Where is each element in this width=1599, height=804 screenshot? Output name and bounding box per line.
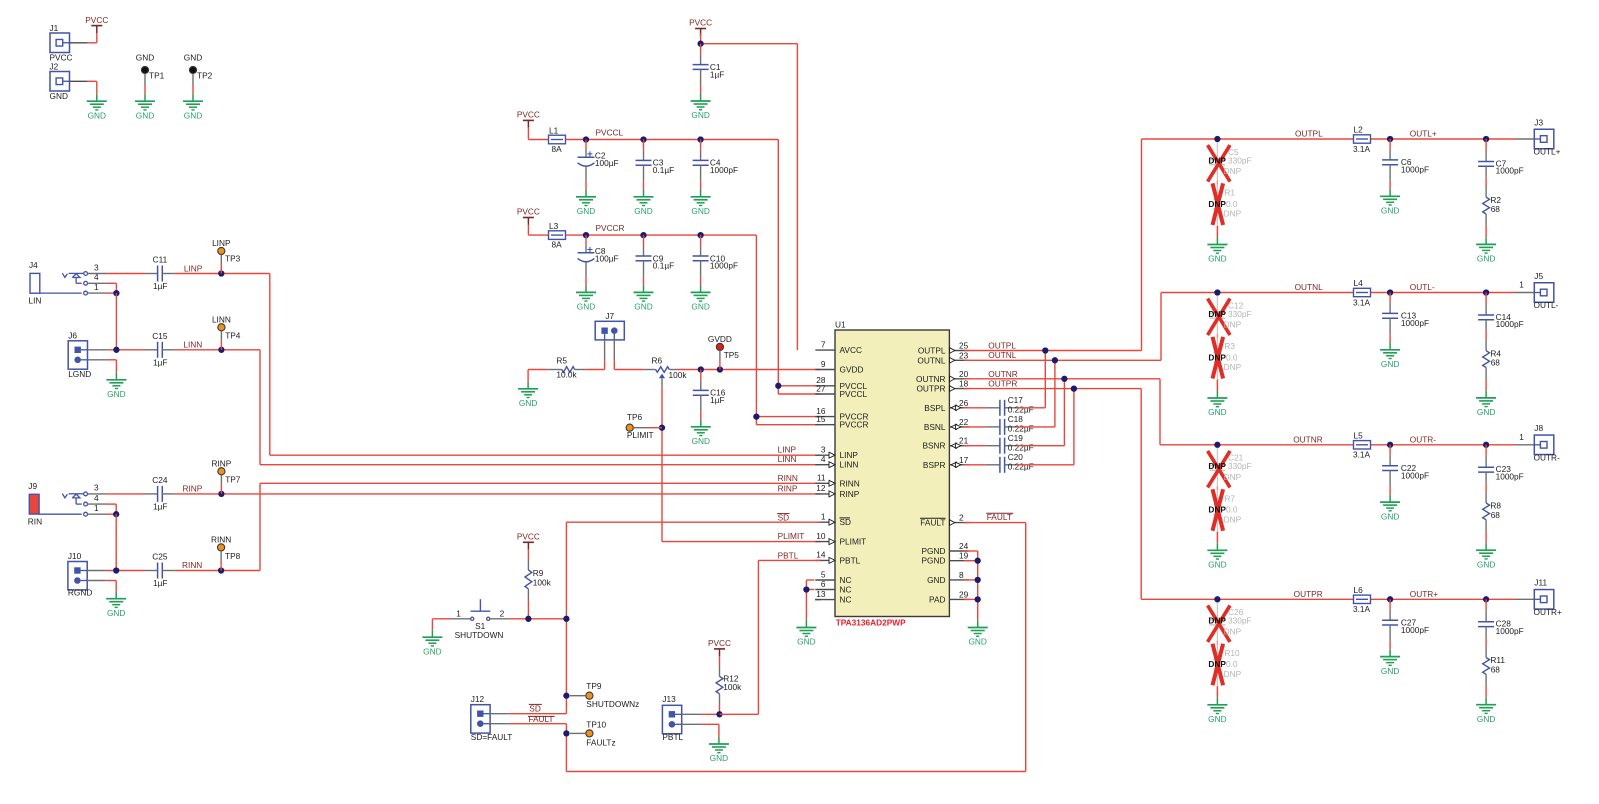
- svg-text:R1: R1: [1224, 188, 1235, 198]
- wire OUTNL rail: [1161, 292, 1354, 294]
- svg-text:1000pF: 1000pF: [1401, 165, 1429, 175]
- wire RINN row: [260, 482, 821, 484]
- resistor R4: [1483, 340, 1502, 380]
- wire: [107, 493, 146, 495]
- wire: [1389, 599, 1391, 609]
- svg-text:TP1: TP1: [149, 71, 165, 81]
- svg-text:R10: R10: [1224, 648, 1240, 658]
- power symbol PVCC (R12): [708, 638, 731, 656]
- svg-text:12: 12: [816, 483, 826, 493]
- wire: [633, 427, 649, 429]
- svg-text:C17: C17: [1008, 395, 1024, 405]
- svg-text:DNP: DNP: [1208, 199, 1226, 209]
- U1 pin 3 (LINP): [815, 445, 858, 461]
- svg-text:LINN: LINN: [778, 454, 797, 464]
- wire: [87, 580, 106, 582]
- junction: [1214, 596, 1220, 602]
- svg-text:0.22µF: 0.22µF: [1008, 462, 1034, 472]
- svg-text:330pF: 330pF: [1228, 155, 1252, 165]
- svg-text:1: 1: [456, 608, 461, 618]
- svg-text:NC: NC: [840, 575, 852, 585]
- svg-text:LINN: LINN: [840, 460, 859, 470]
- wire: [432, 618, 451, 620]
- svg-text:C18: C18: [1008, 414, 1024, 424]
- wire PVCCR: [566, 234, 757, 236]
- svg-text:GND: GND: [927, 575, 945, 585]
- svg-text:PVCC: PVCC: [708, 638, 731, 648]
- U1 pin 6 (NC): [815, 579, 851, 595]
- svg-text:7: 7: [821, 339, 826, 349]
- svg-text:TP8: TP8: [225, 551, 241, 561]
- connector J9 (audio jack): [28, 481, 107, 527]
- junction: [659, 425, 665, 431]
- svg-text:3: 3: [821, 445, 826, 455]
- capacitor C15: [145, 331, 175, 368]
- connector J2: [50, 62, 70, 102]
- svg-text:PBTL: PBTL: [778, 550, 799, 560]
- svg-text:1µF: 1µF: [153, 281, 167, 291]
- svg-text:1µF: 1µF: [153, 578, 167, 588]
- capacitor C14: [1478, 304, 1524, 332]
- U1 pin 1 (SD): [815, 512, 851, 528]
- svg-text:100k: 100k: [669, 370, 688, 380]
- svg-text:SHUTDOWN: SHUTDOWN: [455, 630, 504, 640]
- U1 pin 29 (PAD): [929, 589, 969, 604]
- wire OUTNR rail: [1160, 444, 1354, 446]
- wire: [107, 503, 117, 505]
- svg-text:DNP: DNP: [1224, 626, 1242, 636]
- svg-text:GND: GND: [107, 389, 125, 399]
- ground: [87, 94, 107, 120]
- wire PBTL: [720, 713, 759, 715]
- svg-text:RINP: RINP: [182, 484, 202, 494]
- svg-text:3.1A: 3.1A: [1353, 604, 1371, 614]
- testpoint TP4: [212, 314, 241, 340]
- wire: [1485, 331, 1487, 339]
- ground: [1476, 237, 1496, 263]
- wire: [700, 181, 702, 190]
- svg-text:TP3: TP3: [225, 253, 241, 263]
- svg-text:OUTPR: OUTPR: [1294, 589, 1323, 599]
- svg-text:OUTNL: OUTNL: [1295, 282, 1324, 292]
- svg-text:330pF: 330pF: [1228, 309, 1252, 319]
- wire: [700, 370, 702, 380]
- wire: [70, 42, 88, 44]
- U1 pin 26 (BSPL): [924, 398, 968, 413]
- wire: [700, 277, 702, 286]
- svg-text:17: 17: [959, 455, 969, 465]
- svg-text:GND: GND: [519, 398, 537, 408]
- capacitor C26 (DNP, crossed out): [1208, 605, 1252, 642]
- svg-text:23: 23: [959, 350, 969, 360]
- svg-text:1: 1: [1519, 432, 1524, 442]
- svg-text:GND: GND: [691, 110, 709, 120]
- junction: [697, 136, 703, 142]
- wire: [220, 255, 222, 264]
- wire: [1485, 532, 1487, 543]
- wire: [220, 475, 222, 484]
- svg-text:1000pF: 1000pF: [1401, 470, 1429, 480]
- svg-text:1000pF: 1000pF: [1496, 626, 1524, 636]
- connector J6: [68, 331, 91, 380]
- wire: [88, 349, 108, 351]
- ground: [135, 94, 155, 120]
- capacitor C7: [1478, 150, 1524, 178]
- wire: [527, 370, 529, 382]
- wire: [677, 369, 821, 371]
- resistor R8: [1483, 492, 1502, 532]
- wire: [1485, 445, 1487, 456]
- capacitor C21 (DNP, crossed out): [1208, 451, 1252, 488]
- wire: [1216, 380, 1218, 392]
- svg-text:PAD: PAD: [929, 594, 945, 604]
- svg-text:OUTNR: OUTNR: [1293, 434, 1323, 444]
- U1 pin 16 (PVCCR): [815, 406, 868, 422]
- junction: [583, 232, 589, 238]
- ground: [576, 285, 596, 311]
- U1 pin 20 (OUTNR): [916, 369, 969, 384]
- U1 pin 15 (PVCCR): [815, 414, 868, 430]
- svg-text:LINN: LINN: [183, 340, 202, 350]
- wire: [1485, 293, 1487, 304]
- svg-text:RINN: RINN: [182, 560, 202, 570]
- wire: [490, 723, 509, 725]
- wire: [613, 340, 615, 360]
- svg-text:DNP: DNP: [1224, 515, 1242, 525]
- junction: [1483, 136, 1489, 142]
- svg-text:GND: GND: [1381, 511, 1399, 521]
- ground: [691, 94, 711, 120]
- svg-text:OUTL-: OUTL-: [1410, 282, 1435, 292]
- svg-text:LINN: LINN: [212, 314, 231, 324]
- svg-text:GVDD: GVDD: [708, 334, 732, 344]
- svg-text:OUTR+: OUTR+: [1534, 607, 1563, 617]
- junction: [563, 730, 569, 736]
- ground: [691, 420, 711, 446]
- wire: [570, 732, 586, 734]
- wire: [700, 86, 702, 95]
- capacitor C2 (polarized): [578, 149, 619, 182]
- ground: [691, 190, 711, 216]
- power symbol PVCC (L3): [517, 207, 540, 225]
- svg-text:TP9: TP9: [586, 681, 602, 691]
- svg-text:GVDD: GVDD: [840, 365, 864, 375]
- svg-text:18: 18: [959, 379, 969, 389]
- svg-text:LINP: LINP: [184, 263, 203, 273]
- junction: [1214, 442, 1220, 448]
- svg-text:GND: GND: [136, 110, 154, 120]
- svg-text:J9: J9: [28, 481, 37, 491]
- svg-text:9: 9: [821, 359, 826, 369]
- svg-text:TP7: TP7: [225, 475, 241, 485]
- svg-text:3.1A: 3.1A: [1353, 297, 1371, 307]
- svg-text:GND: GND: [692, 436, 710, 446]
- junction: [697, 41, 703, 47]
- capacitor C12 (DNP, crossed out): [1208, 299, 1252, 336]
- svg-text:L3: L3: [549, 221, 559, 231]
- svg-text:PGND: PGND: [922, 546, 946, 556]
- junction: [1042, 347, 1048, 353]
- svg-text:DNP: DNP: [1224, 166, 1242, 176]
- ground: [1207, 698, 1227, 724]
- svg-text:100µF: 100µF: [595, 254, 619, 264]
- resistor R6 (pot): [644, 356, 687, 381]
- capacitor C19: [986, 433, 1034, 454]
- svg-text:C11: C11: [153, 255, 168, 265]
- wire OUTPR: [964, 388, 1141, 390]
- capacitor C3: [636, 150, 675, 181]
- junction: [1214, 136, 1220, 142]
- capacitor C8 (polarized): [578, 244, 619, 277]
- junction: [218, 491, 224, 497]
- svg-text:J6: J6: [68, 331, 77, 341]
- svg-text:FAULTz: FAULTz: [586, 737, 615, 747]
- connector J12: [471, 694, 513, 742]
- junction: [1052, 357, 1058, 363]
- ground: [1207, 543, 1227, 569]
- wire: [1216, 226, 1218, 238]
- svg-text:PVCC: PVCC: [517, 207, 540, 217]
- svg-text:GND: GND: [691, 302, 709, 312]
- wire: [87, 570, 106, 572]
- svg-text:2: 2: [500, 608, 505, 618]
- svg-text:LIN: LIN: [29, 296, 42, 306]
- wire: [144, 74, 146, 86]
- svg-text:BSPR: BSPR: [923, 460, 946, 470]
- svg-text:J7: J7: [605, 311, 614, 321]
- svg-text:1000pF: 1000pF: [1496, 166, 1524, 176]
- connector J13: [662, 694, 683, 742]
- svg-text:RINP: RINP: [840, 489, 860, 499]
- svg-text:OUTPR: OUTPR: [916, 384, 945, 394]
- svg-text:1: 1: [94, 282, 99, 292]
- junction: [716, 711, 722, 717]
- capacitor C4: [693, 150, 738, 181]
- svg-text:OUTNR: OUTNR: [988, 369, 1018, 379]
- capacitor C22: [1382, 455, 1429, 486]
- svg-text:PBTL: PBTL: [840, 555, 861, 565]
- junction: [1483, 289, 1489, 295]
- capacitor C5 (DNP, crossed out): [1208, 145, 1252, 182]
- svg-text:SD=FAULT: SD=FAULT: [471, 732, 513, 742]
- svg-text:GND: GND: [50, 91, 68, 101]
- testpoint TP2: [184, 52, 213, 80]
- wire: [643, 235, 645, 245]
- ground: [1380, 650, 1400, 676]
- resistor R10 (DNP, crossed out): [1208, 644, 1241, 686]
- wire: [509, 713, 567, 715]
- svg-text:LINP: LINP: [840, 450, 859, 460]
- wire: [1389, 445, 1391, 455]
- svg-text:68: 68: [1491, 358, 1501, 368]
- ground: [106, 592, 126, 618]
- svg-text:GND: GND: [1477, 714, 1495, 724]
- svg-text:0.0: 0.0: [1226, 352, 1238, 362]
- svg-text:PVCCL: PVCCL: [596, 128, 624, 138]
- junction: [113, 511, 119, 517]
- svg-text:0.22µF: 0.22µF: [1008, 443, 1034, 453]
- U1 pin 25 (OUTPL): [918, 341, 969, 356]
- svg-text:1µF: 1µF: [153, 501, 167, 511]
- svg-text:BSNR: BSNR: [922, 441, 945, 451]
- svg-text:100k: 100k: [533, 577, 552, 587]
- testpoint TP7: [211, 458, 240, 484]
- svg-text:R5: R5: [556, 356, 567, 366]
- ground: [709, 737, 729, 763]
- connector J5: [1534, 271, 1559, 310]
- wire (DNP branch body): [1216, 296, 1218, 380]
- svg-text:6: 6: [821, 579, 826, 589]
- svg-text:10: 10: [816, 531, 826, 541]
- svg-text:GND: GND: [184, 52, 202, 62]
- junction: [975, 577, 981, 583]
- svg-text:DNP: DNP: [1224, 472, 1242, 482]
- svg-text:DNP: DNP: [1208, 505, 1226, 515]
- U1 pin 11 (RINN): [815, 473, 859, 489]
- ground: [634, 190, 654, 216]
- svg-text:PVCC: PVCC: [689, 18, 712, 28]
- wire PVCCL bus: [777, 140, 779, 395]
- U1 pin 22 (BSNL): [924, 417, 969, 432]
- junction: [775, 383, 781, 389]
- junction: [1387, 596, 1393, 602]
- connector J4 (audio jack): [29, 260, 107, 306]
- capacitor C16: [693, 380, 726, 411]
- wire: [682, 713, 701, 715]
- wire: [1017, 426, 1055, 428]
- wire: [643, 181, 645, 190]
- junction: [1483, 596, 1489, 602]
- svg-text:DNP: DNP: [1224, 209, 1242, 219]
- svg-text:AVCC: AVCC: [840, 345, 862, 355]
- capacitor C13: [1382, 303, 1429, 334]
- svg-text:4: 4: [94, 272, 99, 282]
- wire: [700, 411, 702, 420]
- wire: [1389, 641, 1391, 650]
- inductor L1: [549, 126, 566, 155]
- capacitor C1: [693, 54, 725, 85]
- svg-text:U1: U1: [835, 320, 846, 330]
- wire: [1485, 638, 1487, 646]
- capacitor C10: [693, 246, 738, 277]
- svg-text:TP5: TP5: [724, 350, 740, 360]
- svg-text:RINN: RINN: [840, 478, 860, 488]
- svg-text:OUTL-: OUTL-: [1534, 300, 1559, 310]
- svg-text:3: 3: [94, 262, 99, 272]
- wire: [585, 235, 587, 244]
- svg-text:3: 3: [94, 483, 99, 493]
- U1 pin 8 (GND): [927, 570, 969, 585]
- svg-text:PLIMIT: PLIMIT: [778, 531, 805, 541]
- capacitor C24: [145, 475, 175, 512]
- wire: [964, 579, 978, 581]
- svg-text:PLIMIT: PLIMIT: [627, 430, 654, 440]
- svg-text:26: 26: [959, 398, 969, 408]
- wire: [700, 140, 702, 150]
- svg-text:DNP: DNP: [1208, 659, 1226, 669]
- svg-text:25: 25: [959, 341, 969, 351]
- ground: [968, 621, 988, 647]
- wire: [964, 407, 986, 409]
- svg-text:OUTNL: OUTNL: [917, 355, 946, 365]
- svg-text:GND: GND: [1477, 254, 1495, 264]
- junction: [113, 347, 119, 353]
- svg-text:LINP: LINP: [778, 445, 797, 455]
- connector J11: [1534, 578, 1563, 617]
- wire: [1389, 487, 1391, 496]
- junction: [697, 232, 703, 238]
- svg-text:100µF: 100µF: [595, 158, 619, 168]
- inductor L6: [1353, 585, 1371, 614]
- U1 pin 7 (AVCC): [815, 339, 862, 355]
- svg-text:J1: J1: [50, 23, 59, 33]
- svg-text:SD: SD: [840, 517, 852, 527]
- wire LINN: [175, 349, 260, 351]
- svg-text:1: 1: [94, 503, 99, 513]
- svg-text:LGND: LGND: [68, 369, 91, 379]
- wire: [964, 464, 986, 466]
- U1 pin 18 (OUTPR): [916, 379, 968, 394]
- op-amp / IC U1 TPA3136AD2PWP: [835, 320, 949, 628]
- svg-text:FAULT: FAULT: [528, 714, 553, 724]
- svg-text:GND: GND: [634, 302, 652, 312]
- svg-text:1µF: 1µF: [153, 357, 167, 367]
- svg-text:GND: GND: [136, 52, 154, 62]
- junction: [698, 366, 704, 372]
- svg-text:FAULT: FAULT: [920, 518, 945, 528]
- ground: [1476, 543, 1496, 569]
- junction: [583, 136, 589, 142]
- svg-text:BSNL: BSNL: [924, 422, 946, 432]
- wire: [70, 80, 88, 82]
- svg-text:TP2: TP2: [197, 71, 213, 81]
- svg-text:PVCC: PVCC: [85, 15, 108, 25]
- svg-text:TP6: TP6: [627, 412, 643, 422]
- junction: [113, 290, 119, 296]
- wire: [220, 551, 222, 561]
- junction: [218, 270, 224, 276]
- svg-text:RIN: RIN: [28, 517, 42, 527]
- svg-text:GND: GND: [710, 753, 728, 763]
- svg-text:RINN: RINN: [778, 473, 798, 483]
- svg-text:OUTR-: OUTR-: [1410, 434, 1437, 444]
- svg-text:TP4: TP4: [225, 331, 241, 341]
- ground: [106, 373, 126, 399]
- wire: [192, 74, 194, 86]
- svg-text:C19: C19: [1008, 433, 1024, 443]
- svg-text:OUTPL: OUTPL: [918, 346, 946, 356]
- wire: [1485, 380, 1487, 391]
- svg-text:L1: L1: [549, 126, 559, 136]
- wire: [570, 695, 586, 697]
- U1 pin 23 (OUTNL): [917, 350, 968, 365]
- svg-text:OUTL+: OUTL+: [1410, 129, 1437, 139]
- svg-text:OUTPL: OUTPL: [1295, 129, 1323, 139]
- wire: [107, 273, 146, 275]
- wire NC: [806, 579, 814, 581]
- wire: [1017, 407, 1045, 409]
- wire: [509, 618, 567, 620]
- svg-text:J10: J10: [68, 551, 82, 561]
- svg-text:DNP: DNP: [1208, 309, 1226, 319]
- svg-text:14: 14: [816, 550, 826, 560]
- svg-text:22: 22: [959, 417, 969, 427]
- capacitor C18: [986, 414, 1034, 435]
- wire: [88, 359, 108, 361]
- ground: [1380, 343, 1400, 369]
- svg-text:OUTL+: OUTL+: [1534, 147, 1561, 157]
- wire: [107, 513, 117, 515]
